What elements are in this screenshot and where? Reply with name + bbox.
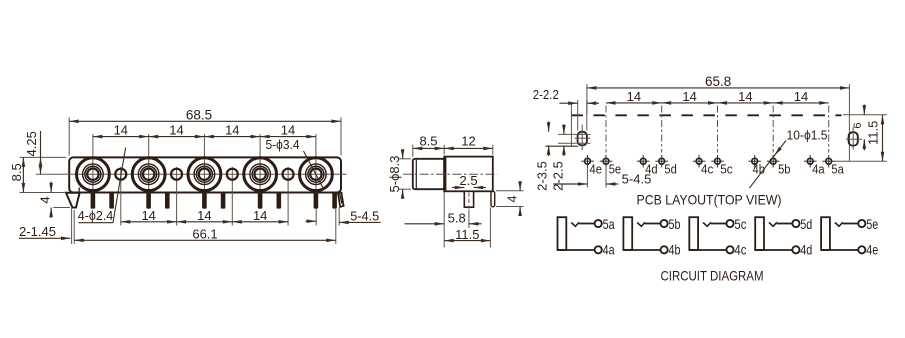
pin 4e front view	[91, 193, 96, 209]
svg-text:5a: 5a	[603, 216, 615, 232]
pin 4d front view	[146, 193, 151, 209]
svg-text:2-2.2: 2-2.2	[533, 87, 559, 102]
mounting hole 1 (phi2.4)	[115, 167, 126, 226]
front view body outline	[69, 157, 341, 192]
svg-text:4a: 4a	[603, 241, 615, 257]
svg-text:14: 14	[197, 208, 211, 223]
svg-text:4: 4	[505, 195, 519, 202]
svg-text:66.1: 66.1	[192, 227, 217, 242]
dimension 66.1 extension lines	[72, 208, 75, 244]
svg-text:14: 14	[253, 208, 267, 223]
title CIRCUIT DIAGRAM	[661, 268, 764, 284]
front view horizontal centerline	[36, 173, 347, 175]
svg-text:6: 6	[852, 123, 864, 129]
pin 5a front view	[332, 193, 337, 209]
side view body	[444, 157, 493, 192]
svg-text:PCB LAYOUT(TOP VIEW): PCB LAYOUT(TOP VIEW)	[637, 191, 782, 207]
pcb pads 4e 5e	[581, 155, 621, 177]
pcb right top ref line	[843, 114, 887, 116]
label 10-phi1.5 with leader	[749, 128, 827, 189]
label 5-phi3.4 with leader	[266, 137, 324, 189]
left mounting leg	[66, 188, 80, 208]
svg-text:5a: 5a	[831, 163, 843, 177]
svg-text:5e: 5e	[866, 216, 878, 232]
svg-text:CIRCUIT DIAGRAM: CIRCUIT DIAGRAM	[661, 268, 764, 284]
svg-text:5d: 5d	[664, 163, 676, 177]
svg-text:14: 14	[114, 123, 128, 138]
dimension 2.5	[452, 173, 486, 189]
svg-text:4d: 4d	[800, 241, 812, 257]
svg-text:4a: 4a	[812, 163, 824, 177]
svg-text:14: 14	[627, 89, 641, 104]
pin 5d front view	[165, 193, 170, 209]
label 4-phi2.4 with leader	[78, 148, 126, 224]
pcb dimension 2-2.2	[533, 87, 599, 131]
mounting hole 3 (phi2.4)	[227, 167, 238, 226]
svg-text:4d: 4d	[645, 163, 657, 177]
pcb body dashed outline	[545, 103, 841, 146]
dimension 4 left	[38, 182, 71, 219]
dimension 8.5 side	[413, 134, 444, 151]
svg-text:14: 14	[141, 208, 155, 223]
jack J2 front view	[132, 134, 165, 209]
pcb dimension 6	[852, 105, 866, 151]
side view centerline	[403, 173, 498, 175]
svg-text:14: 14	[225, 123, 239, 138]
side dims extension lines	[413, 145, 493, 157]
svg-text:5e: 5e	[609, 163, 621, 177]
jack J5 front view	[300, 134, 333, 209]
jack J4 front view	[244, 134, 277, 209]
pin 5e front view	[109, 193, 114, 209]
svg-text:2-2.5: 2-2.5	[551, 161, 566, 191]
circuit jack d	[755, 216, 812, 257]
circuit jack b	[623, 216, 680, 257]
svg-text:14: 14	[169, 123, 183, 138]
svg-text:11.5: 11.5	[866, 121, 881, 145]
pcb dimension 2-2.5	[551, 124, 566, 191]
svg-text:5c: 5c	[720, 163, 732, 177]
svg-text:12: 12	[461, 134, 475, 149]
dimension 68.5 extension lines	[69, 117, 341, 155]
side view barrel	[413, 159, 444, 189]
dimension 12 side	[444, 134, 493, 151]
svg-text:2-3.5: 2-3.5	[535, 161, 550, 191]
circuit jack a	[558, 216, 615, 257]
dimension 4 side	[496, 181, 524, 216]
pin 4a front view	[314, 193, 319, 209]
svg-text:8.5: 8.5	[419, 134, 437, 149]
svg-text:5-ϕ8.3: 5-ϕ8.3	[387, 156, 402, 193]
svg-text:5-4.5: 5-4.5	[350, 209, 379, 224]
side view pin 4	[464, 191, 473, 210]
svg-text:5.8: 5.8	[448, 211, 466, 226]
pin 5b front view	[277, 193, 282, 209]
svg-text:4e: 4e	[866, 241, 878, 257]
pcb dimension 2-3.5	[535, 122, 551, 191]
jack J1 front view	[77, 134, 110, 209]
dimension 5.8	[405, 192, 482, 248]
dimension 14 x4 top row	[93, 123, 316, 139]
pcb right oval	[846, 127, 862, 150]
svg-text:4c: 4c	[734, 241, 746, 257]
pcb bottom ref line	[834, 160, 887, 162]
svg-text:2.5: 2.5	[460, 173, 478, 188]
dimension 4.25	[24, 131, 43, 174]
svg-text:14: 14	[738, 89, 752, 104]
svg-text:4-ϕ2.4: 4-ϕ2.4	[78, 208, 114, 223]
pcb dimension 5-4.5	[553, 167, 651, 188]
svg-text:4: 4	[38, 196, 53, 203]
pcb pads 4d 5d	[637, 155, 677, 177]
pcb dimension 14 x4	[606, 89, 829, 105]
dimension 8.5	[9, 157, 25, 192]
svg-text:5b: 5b	[778, 163, 790, 177]
dimension 5-phi8.3	[387, 149, 411, 198]
svg-text:2-1.45: 2-1.45	[19, 224, 56, 239]
dimension 68.5	[69, 108, 341, 124]
svg-text:4c: 4c	[701, 163, 713, 177]
svg-text:14: 14	[794, 89, 808, 104]
dimension 11.5 side	[444, 208, 490, 248]
svg-text:10-ϕ1.5: 10-ϕ1.5	[787, 128, 828, 143]
svg-text:11.5: 11.5	[455, 227, 479, 242]
dimension 66.1	[74, 227, 336, 242]
pcb dimension 65.8	[587, 74, 850, 161]
svg-text:4.25: 4.25	[24, 131, 39, 156]
pcb pads 4c 5c	[693, 155, 733, 177]
pcb left slot	[558, 125, 591, 151]
jack J3 front view	[188, 134, 221, 209]
svg-text:68.5: 68.5	[186, 108, 212, 123]
svg-text:4e: 4e	[590, 163, 602, 177]
circuit jack c	[689, 216, 746, 257]
title PCB LAYOUT	[637, 191, 782, 207]
mounting hole 4 (phi2.4)	[283, 167, 294, 226]
pin 4b front view	[258, 193, 263, 209]
svg-text:4b: 4b	[669, 241, 681, 257]
pcb jack centerlines dash-dot	[606, 106, 829, 153]
dimension 5-4.5 front	[306, 208, 381, 245]
pcb pads 4b 5b	[748, 155, 790, 177]
pcb dimension 11.5	[866, 115, 885, 161]
pcb pads 4a 5a	[804, 155, 844, 177]
svg-text:5d: 5d	[800, 216, 812, 232]
dimension 14 x3 bottom row	[121, 208, 288, 224]
circuit jack e	[821, 216, 878, 257]
svg-text:5c: 5c	[734, 216, 746, 232]
side view pin 5	[491, 191, 495, 207]
right mounting leg	[338, 193, 344, 207]
svg-text:14: 14	[682, 89, 696, 104]
pin 4c front view	[202, 193, 207, 209]
dimension 8.5 extension lines	[20, 157, 67, 192]
mounting hole 2 (phi2.4)	[171, 167, 182, 226]
svg-text:8.5: 8.5	[9, 163, 24, 181]
label 2-1.45 with leader	[19, 224, 71, 240]
svg-text:5b: 5b	[669, 216, 681, 232]
svg-text:5-ϕ3.4: 5-ϕ3.4	[266, 137, 300, 152]
svg-text:65.8: 65.8	[705, 74, 731, 89]
svg-text:14: 14	[281, 123, 295, 138]
pin 5c front view	[221, 193, 226, 209]
